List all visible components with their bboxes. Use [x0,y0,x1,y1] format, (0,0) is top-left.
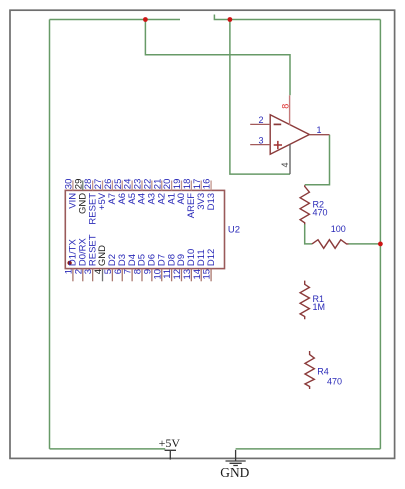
wire top rail right segment with stub [214,15,380,20]
resistor R1 [300,281,309,320]
svg-text:470: 470 [313,208,328,218]
svg-text:U2: U2 [228,224,240,235]
IC U2 body [65,190,224,268]
svg-text:+5V: +5V [159,436,181,450]
U2 top pin names [68,192,217,224]
U2 bottom pin stubs [73,269,211,282]
resistor R4 [305,351,314,389]
svg-text:100: 100 [331,224,346,234]
svg-text:16: 16 [202,179,213,190]
wire R2 bottom to resistor 100 [305,224,312,244]
svg-text:R4: R4 [317,366,329,376]
ground [226,450,246,466]
svg-text:2: 2 [258,115,263,125]
svg-text:3: 3 [258,135,263,145]
svg-text:8: 8 [280,104,290,109]
svg-text:4: 4 [280,162,290,167]
resistor 100 horizontal [312,240,349,249]
junction node A [143,17,148,22]
U2 bottom pin names [68,234,217,266]
U2 bottom pin numbers 1..15 [64,269,213,280]
resistor R2 [300,185,309,224]
op-amp pin 2 stub [250,123,270,125]
+5V power terminal [165,450,176,459]
op-amp pin 3 stub [250,144,270,146]
svg-text:470: 470 [327,376,342,386]
wire from node A down to op-amp pin8 [145,20,290,96]
wire resistor 100 to right rail [349,243,381,245]
junction node B [228,17,233,22]
op-amp pin 1 stub [309,134,329,136]
svg-text:D12: D12 [206,249,217,266]
wire right vertical [379,20,381,449]
op-amp U1 triangle [270,115,309,154]
op-amp pin 4 line [289,144,291,174]
op-amp pin 8 line [289,95,291,125]
wire bottom left segment to +5V terminal [50,448,166,450]
wire top rail left segment [50,19,181,21]
U2 pin 1 marker dot [67,261,71,265]
svg-text:1M: 1M [313,302,326,312]
svg-text:GND: GND [220,465,249,480]
junction node C [378,242,383,247]
wire from node B down to op-amp pin4 [230,20,290,175]
wire left vertical [49,20,51,449]
wire op-amp output to R2 [305,135,330,185]
U2 top pin numbers 30..16 [64,179,213,190]
svg-text:15: 15 [202,269,213,280]
svg-text:1: 1 [317,125,322,135]
U2 top pin stubs [73,181,211,191]
wire bottom right segment from GND stub [236,448,381,450]
op-amp plus symbol [274,141,282,149]
svg-text:D13: D13 [206,193,217,210]
op-amp minus symbol [274,123,282,125]
